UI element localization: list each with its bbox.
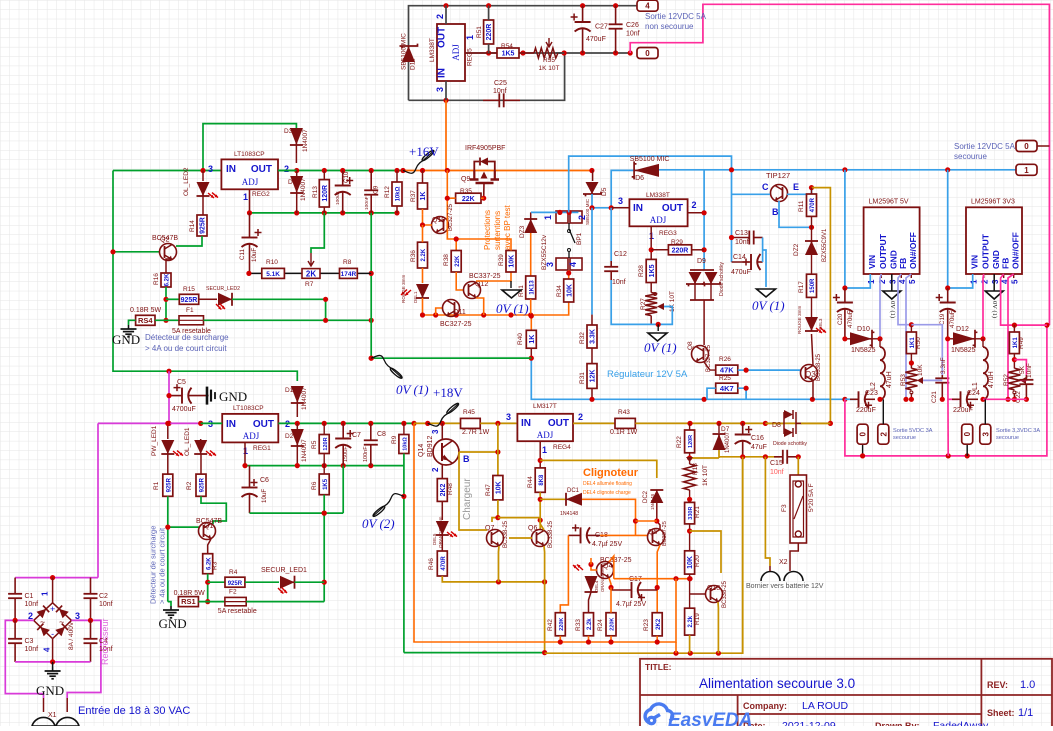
wire orange x676 to yellow bbox=[675, 642, 677, 653]
svg-text:R26: R26 bbox=[719, 356, 731, 363]
resistor R44 8k8 bbox=[535, 468, 545, 492]
inductor L2 47uH bbox=[880, 347, 885, 399]
svg-text:~: ~ bbox=[59, 617, 64, 627]
junction dots +16V rail bbox=[200, 168, 205, 173]
svg-text:BC338-25: BC338-25 bbox=[503, 520, 509, 548]
wire TIP127 base down bbox=[779, 201, 812, 227]
svg-text:925R: 925R bbox=[200, 217, 207, 234]
LED PW_LED1 bbox=[167, 423, 169, 439]
wire R46 bottom olive row bbox=[442, 576, 544, 582]
svg-text:IN: IN bbox=[521, 418, 531, 429]
svg-text:2: 2 bbox=[431, 467, 440, 472]
port 0 sortie non secourue - bbox=[637, 48, 658, 59]
wire Q4 emitter bbox=[609, 578, 611, 588]
svg-text:3: 3 bbox=[431, 429, 440, 434]
svg-text:R9: R9 bbox=[391, 435, 398, 444]
capacitor C27 470uF bbox=[582, 6, 584, 22]
svg-text:D9: D9 bbox=[697, 258, 706, 265]
svg-text:R37: R37 bbox=[410, 190, 417, 202]
svg-text:Q6: Q6 bbox=[528, 525, 537, 532]
wire pink ON/OFF block2 bbox=[1008, 274, 1014, 399]
svg-text:1K 10T: 1K 10T bbox=[702, 465, 709, 486]
svg-text:D2: D2 bbox=[285, 433, 294, 440]
svg-text:RS4: RS4 bbox=[138, 316, 153, 325]
wire Q13 emitter bbox=[717, 602, 719, 653]
wire R39 top bbox=[456, 239, 511, 251]
svg-text:non secourue: non secourue bbox=[645, 22, 694, 31]
svg-text:BC337-25: BC337-25 bbox=[469, 273, 501, 280]
svg-text:3: 3 bbox=[991, 279, 1000, 284]
resistor R51 220R bbox=[484, 20, 494, 44]
wire R10 R7 R8 row bbox=[249, 272, 262, 274]
wire Q12 collector bbox=[476, 272, 511, 281]
wire 0V(1) protections rail bbox=[423, 302, 569, 315]
svg-text:10K: 10K bbox=[566, 284, 573, 297]
svg-text:SB5100 MIC: SB5100 MIC bbox=[630, 156, 670, 163]
resistor R35 22K bbox=[456, 193, 481, 203]
resistor R32 3.3K bbox=[587, 325, 597, 348]
ground GND detector1 bbox=[168, 602, 171, 606]
capacitor C25 10nf bbox=[483, 99, 499, 101]
svg-text:R23: R23 bbox=[643, 619, 650, 631]
resistor R24 220K bbox=[606, 613, 616, 636]
svg-text:BC327-25: BC327-25 bbox=[448, 203, 454, 231]
svg-text:10nf: 10nf bbox=[493, 88, 507, 95]
resistor R38 22K bbox=[451, 251, 461, 273]
connector X1 bbox=[43, 698, 45, 712]
svg-text:R35: R35 bbox=[460, 188, 472, 195]
svg-text:100nF: 100nF bbox=[363, 446, 369, 462]
svg-text:R25: R25 bbox=[719, 375, 731, 382]
svg-text:surtentions: surtentions bbox=[493, 211, 502, 250]
svg-text:1N4007: 1N4007 bbox=[302, 129, 309, 152]
svg-text:OUT: OUT bbox=[548, 418, 569, 429]
svg-text:47uF: 47uF bbox=[751, 444, 767, 451]
wire Q6 base bbox=[509, 537, 532, 539]
diode D5 SB5100 MIC bbox=[586, 182, 599, 194]
wire adj row bbox=[245, 465, 404, 467]
svg-text:2: 2 bbox=[981, 279, 990, 284]
svg-text:R14: R14 bbox=[189, 220, 196, 232]
svg-text:SB5100 MIC: SB5100 MIC bbox=[585, 198, 590, 225]
wire olive R47 column bbox=[497, 423, 499, 475]
wire magenta bridge top bbox=[15, 577, 98, 579]
svg-text:DEL4: DEL4 bbox=[594, 580, 599, 592]
svg-text:Chargeur: Chargeur bbox=[462, 478, 473, 520]
svg-text:47uH: 47uH bbox=[988, 371, 995, 388]
svg-text:47uH: 47uH bbox=[886, 371, 893, 388]
svg-text:10kΩ: 10kΩ bbox=[403, 437, 409, 451]
svg-text:R43: R43 bbox=[618, 409, 630, 416]
svg-text:120R: 120R bbox=[323, 437, 329, 450]
transistor Q3 BC338-25 bbox=[801, 365, 818, 382]
wire cyan 12V secourue rail bbox=[659, 169, 1016, 171]
svg-text:925R: 925R bbox=[181, 297, 198, 304]
capacitor C2 10nf bbox=[90, 578, 92, 594]
wire R25 right down bbox=[738, 388, 746, 399]
svg-text:ADJ: ADJ bbox=[537, 430, 554, 440]
wire R3 bottom bbox=[207, 574, 209, 602]
transistor Q10 BC327-25 bbox=[432, 217, 449, 234]
svg-text:Redresseur: Redresseur bbox=[100, 618, 110, 665]
svg-text:LA ROUD: LA ROUD bbox=[802, 700, 849, 712]
wire C6 bottom row bbox=[250, 512, 344, 514]
svg-text:1: 1 bbox=[1024, 166, 1029, 175]
capacitor C15 10nf bbox=[774, 456, 783, 458]
svg-text:Q11: Q11 bbox=[453, 309, 466, 316]
diode D6 SB5100 MIC bbox=[634, 164, 659, 177]
resistor R11 470R bbox=[807, 194, 817, 216]
svg-text:REV:: REV: bbox=[987, 680, 1008, 690]
svg-text:1N4007: 1N4007 bbox=[301, 387, 308, 410]
svg-text:C22: C22 bbox=[1015, 391, 1022, 403]
svg-text:C: C bbox=[762, 182, 769, 192]
wire TIP127 collector cyan bbox=[732, 193, 771, 195]
fuse F3 5*20 5A F bbox=[790, 475, 807, 543]
svg-text:D3: D3 bbox=[284, 128, 293, 135]
svg-text:VIN: VIN bbox=[970, 255, 980, 269]
svg-text:10kΩ: 10kΩ bbox=[396, 186, 402, 201]
svg-text:D7: D7 bbox=[721, 426, 730, 433]
svg-text:D8: D8 bbox=[772, 422, 781, 429]
svg-text:Sortie 5VDC 3A: Sortie 5VDC 3A bbox=[893, 428, 933, 434]
wire Q7 base bbox=[459, 452, 487, 530]
svg-text:C8: C8 bbox=[377, 431, 386, 438]
svg-text:BC338-25: BC338-25 bbox=[816, 353, 822, 381]
svg-text:avec BP test: avec BP test bbox=[503, 204, 512, 250]
wire orange Q4 row bbox=[614, 578, 690, 580]
capacitor C26 10nf bbox=[615, 6, 617, 25]
potentiometer R27 1K 10T bbox=[650, 283, 652, 293]
wire REG5 pin3 down bbox=[445, 81, 447, 100]
svg-text:R49: R49 bbox=[1018, 337, 1025, 349]
svg-text:R24: R24 bbox=[597, 619, 604, 631]
svg-text:6.2K: 6.2K bbox=[165, 273, 171, 286]
svg-text:ADJ: ADJ bbox=[650, 215, 667, 225]
wire R7 wiper from adj row bbox=[311, 213, 324, 253]
svg-text:LT1083CP: LT1083CP bbox=[234, 151, 265, 158]
svg-text:R5: R5 bbox=[311, 440, 318, 449]
wire R26 right to Q3 base bbox=[738, 370, 801, 372]
port 0 block1 bbox=[857, 424, 868, 444]
svg-text:PW_LED1: PW_LED1 bbox=[151, 425, 158, 456]
wire REG2 top loop bbox=[203, 124, 296, 171]
svg-text:ORANGE 3mm: ORANGE 3mm bbox=[600, 563, 605, 592]
svg-text:L1: L1 bbox=[972, 382, 979, 390]
svg-text:SB5100 MIC: SB5100 MIC bbox=[401, 33, 408, 70]
mosfet Q9 IRF4905PBF bbox=[474, 162, 495, 171]
capacitor C4 10nf bbox=[90, 620, 92, 638]
wire olive rail +18V bbox=[414, 422, 461, 424]
wire REG2 out pin2 bbox=[278, 170, 297, 172]
svg-text:0: 0 bbox=[859, 431, 868, 436]
wire ADJ pin1 chain bbox=[650, 226, 652, 259]
svg-text:R8: R8 bbox=[343, 259, 352, 266]
svg-text:1K5: 1K5 bbox=[649, 264, 656, 277]
svg-text:220uF: 220uF bbox=[856, 407, 876, 414]
wire orange vertical protections bbox=[446, 170, 448, 239]
svg-text:R31: R31 bbox=[579, 372, 586, 384]
svg-text:C11: C11 bbox=[239, 249, 246, 260]
svg-text:2.7R 1W: 2.7R 1W bbox=[462, 429, 490, 436]
svg-text:10nf: 10nf bbox=[735, 239, 749, 246]
svg-text:D12: D12 bbox=[956, 326, 969, 333]
net flag 0V (1) protections bbox=[510, 281, 512, 288]
svg-text:R11: R11 bbox=[798, 200, 805, 212]
svg-text:10K: 10K bbox=[496, 481, 503, 494]
capacitor C1 10nf bbox=[14, 578, 16, 594]
LED SECUR_LED1 bbox=[245, 581, 279, 583]
svg-text:8K8: 8K8 bbox=[539, 474, 545, 486]
svg-text:3.3K: 3.3K bbox=[590, 329, 597, 344]
net flag 0V (1) TIP127 bbox=[757, 289, 776, 297]
wire 3V3 out rail with C24 bbox=[948, 398, 958, 400]
port 0 sortie 12V secourue bbox=[1016, 141, 1037, 152]
capacitor C8 100nF bbox=[370, 423, 372, 440]
transistor TIP127 Q bbox=[771, 185, 788, 202]
wire F2 right bbox=[246, 601, 324, 603]
svg-text:Q8: Q8 bbox=[687, 341, 694, 350]
port 3 block2 bbox=[980, 424, 991, 444]
wire yellow bottom rail bbox=[545, 457, 743, 653]
svg-text:8A / 400V: 8A / 400V bbox=[68, 621, 75, 650]
svg-text:R12: R12 bbox=[384, 186, 391, 198]
wire REG2 adj pin1 down bbox=[249, 189, 251, 213]
svg-text:Sortie 12VDC 5A: Sortie 12VDC 5A bbox=[954, 142, 1016, 151]
wire F3 to X2 bbox=[790, 543, 798, 566]
svg-text:Détecteur de surcharge: Détecteur de surcharge bbox=[149, 526, 158, 604]
wire SECUR_LED2 to right vertical bbox=[232, 299, 326, 320]
wire R6 bottom to detector bbox=[323, 495, 325, 602]
svg-text:BC338-25: BC338-25 bbox=[548, 520, 554, 548]
svg-text:0: 0 bbox=[1024, 142, 1029, 151]
resistor R28 1K5 bbox=[646, 259, 656, 282]
wire DC2 to Q5 collector bbox=[657, 503, 660, 529]
port 1 sortie 12V secourue bbox=[1016, 164, 1037, 175]
LED SECUR_LED2 bbox=[199, 298, 217, 300]
svg-text:Entrée de 18 à 30 VAC: Entrée de 18 à 30 VAC bbox=[78, 705, 190, 717]
svg-text:Q7: Q7 bbox=[485, 525, 494, 532]
wire lavender OUTPUT block1 bbox=[880, 274, 881, 339]
wire IN pin3 bbox=[611, 207, 629, 209]
wire R43 right rail bbox=[635, 422, 831, 424]
svg-text:SECUR_LED2: SECUR_LED2 bbox=[206, 286, 240, 292]
svg-text:R51: R51 bbox=[476, 26, 483, 38]
svg-text:R3: R3 bbox=[212, 561, 219, 570]
wire TIP127 emitter bbox=[787, 188, 812, 195]
capacitor C23 220uF bbox=[850, 398, 859, 400]
diode D3 1N4007 bbox=[290, 128, 303, 145]
resistor R31 12K bbox=[591, 348, 593, 364]
capacitor C14 470uF bbox=[732, 261, 752, 263]
wire Q8 emitter to R26 bbox=[704, 362, 716, 370]
svg-text:+: + bbox=[50, 604, 55, 614]
wire Q2 base feed bbox=[113, 251, 160, 253]
svg-text:174R: 174R bbox=[341, 271, 357, 278]
resistor R2 925R bbox=[196, 474, 206, 496]
svg-text:3: 3 bbox=[981, 431, 990, 436]
svg-text:R53: R53 bbox=[900, 374, 907, 386]
svg-text:R18: R18 bbox=[692, 463, 699, 475]
svg-text:470uF: 470uF bbox=[949, 310, 956, 328]
svg-text:3: 3 bbox=[506, 412, 511, 422]
regulator LM2596T 5V bbox=[864, 207, 920, 274]
wire R2 to Q1 collector bbox=[201, 496, 226, 524]
regulator U REG5 LM338T bbox=[437, 24, 465, 81]
wire Q3 collector chain bbox=[812, 334, 814, 365]
wire Q12 emitter to R39 R41 bbox=[476, 298, 484, 315]
wire bridge top lead bbox=[52, 578, 54, 603]
svg-text:220R: 220R bbox=[486, 24, 493, 41]
svg-text:LM2596T 5V: LM2596T 5V bbox=[869, 199, 909, 206]
svg-text:10nf: 10nf bbox=[99, 601, 113, 608]
capacitor C13 10nf bbox=[732, 237, 750, 239]
wire DC1 right orange bbox=[582, 499, 636, 535]
svg-text:R6: R6 bbox=[311, 481, 318, 490]
ground GND C5 bbox=[206, 387, 209, 405]
svg-text:0.18R 5W: 0.18R 5W bbox=[174, 590, 206, 597]
resistor R45 2.7R 1W bbox=[461, 418, 481, 428]
svg-text:IN: IN bbox=[437, 68, 448, 78]
svg-text:VIN: VIN bbox=[867, 255, 877, 269]
wire diode D5 feed bbox=[592, 170, 594, 181]
svg-text:Q12: Q12 bbox=[475, 281, 488, 288]
fuse F1 5A resetable bbox=[179, 316, 204, 325]
capacitor C20 470uF bbox=[844, 288, 846, 303]
wire REG1 top rail bbox=[169, 371, 297, 381]
diode DC1 1N4148 bbox=[540, 498, 565, 500]
svg-text:470uF: 470uF bbox=[586, 36, 606, 43]
resistor R13 120R bbox=[319, 180, 329, 207]
svg-text:1/1: 1/1 bbox=[1018, 707, 1033, 719]
EasyEDA logo bbox=[645, 704, 673, 724]
svg-text:470uF: 470uF bbox=[731, 269, 751, 276]
svg-text:LT1083CP: LT1083CP bbox=[233, 405, 264, 412]
svg-text:R13: R13 bbox=[312, 186, 319, 198]
svg-text:BC337-25: BC337-25 bbox=[662, 521, 668, 546]
svg-text:1N5825: 1N5825 bbox=[851, 347, 876, 354]
diode D8 double schottky bbox=[765, 422, 783, 424]
svg-text:D10: D10 bbox=[857, 326, 870, 333]
svg-text:1K5: 1K5 bbox=[323, 478, 329, 490]
svg-text:Diode schottky: Diode schottky bbox=[719, 262, 725, 296]
svg-text:R21: R21 bbox=[694, 506, 701, 518]
svg-text:Q5: Q5 bbox=[648, 529, 657, 536]
resistor R17 150R bbox=[811, 255, 813, 274]
svg-text:5: 5 bbox=[1011, 279, 1020, 284]
wire ADJ down bbox=[539, 441, 541, 468]
svg-text:5: 5 bbox=[908, 279, 917, 284]
resistor R47 10K bbox=[493, 476, 503, 500]
wire REG5 pin2 to top rail bbox=[445, 6, 447, 24]
resistor R39 10K bbox=[506, 251, 516, 273]
resistor R16 6.2K bbox=[161, 273, 171, 287]
wire vertical C9 column down bbox=[370, 213, 372, 358]
svg-text:C3: C3 bbox=[25, 638, 34, 645]
svg-text:REG5: REG5 bbox=[467, 48, 474, 66]
svg-text:150R: 150R bbox=[810, 278, 816, 293]
svg-text:ON#/OFF: ON#/OFF bbox=[908, 232, 918, 269]
svg-text:1: 1 bbox=[970, 279, 979, 284]
resistor R43 0.1R 1W bbox=[615, 418, 635, 428]
gnd arrow flag block1 pin3 bbox=[891, 274, 893, 291]
svg-text:REG2: REG2 bbox=[252, 191, 270, 198]
svg-text:IN: IN bbox=[226, 419, 236, 430]
wire cyan R32 column bbox=[591, 208, 593, 315]
svg-text:2021-12-09: 2021-12-09 bbox=[782, 720, 836, 726]
svg-text:R29: R29 bbox=[671, 239, 683, 246]
transistor Q2 BC547B bbox=[160, 244, 177, 261]
svg-text:R40: R40 bbox=[517, 333, 524, 345]
wire lavender FB block1 bbox=[898, 274, 911, 325]
wire R16 bottom to R15 node bbox=[165, 287, 167, 320]
svg-text:0V (1): 0V (1) bbox=[396, 382, 429, 397]
svg-text:L2: L2 bbox=[870, 382, 877, 390]
svg-text:OUT: OUT bbox=[253, 419, 274, 430]
wire magenta C5 branch bbox=[168, 371, 170, 423]
svg-text:0.1R 1W: 0.1R 1W bbox=[610, 429, 638, 436]
capacitor C12 10nf bbox=[610, 208, 612, 261]
diode D10 1N5825 bbox=[850, 332, 872, 345]
svg-text:D6: D6 bbox=[635, 175, 644, 182]
wire Q9 gate to R35 bbox=[483, 183, 485, 198]
resistor R10 5.1K bbox=[262, 268, 285, 278]
svg-text:GND: GND bbox=[112, 332, 140, 347]
wire lavender FB to C21 bbox=[911, 325, 942, 375]
svg-text:GND: GND bbox=[219, 389, 247, 404]
resistor R36 2.2K bbox=[418, 242, 428, 268]
wire pink OUTPUT block2 bbox=[982, 274, 985, 339]
svg-text:D1: D1 bbox=[285, 387, 294, 394]
wire port 3 up bbox=[984, 399, 986, 424]
svg-text:C25: C25 bbox=[494, 80, 507, 87]
svg-text:5A resetable: 5A resetable bbox=[218, 608, 257, 615]
svg-text:2: 2 bbox=[879, 431, 888, 436]
svg-text:BC338-25: BC338-25 bbox=[722, 580, 728, 608]
svg-text:Q13: Q13 bbox=[707, 585, 720, 592]
svg-text:ADJ: ADJ bbox=[451, 44, 461, 61]
svg-text:REG3: REG3 bbox=[659, 230, 677, 237]
transistor Q5 BC337-25 bbox=[648, 529, 665, 546]
svg-text:IRF4905PBF: IRF4905PBF bbox=[465, 145, 505, 152]
wire OUT pin2 to cyan vertical bbox=[688, 212, 705, 214]
capacitor C22 10nF bbox=[1025, 375, 1027, 380]
svg-text:2: 2 bbox=[28, 611, 33, 621]
wire C12 bottom cyan to R27 wiper bbox=[611, 280, 672, 324]
svg-text:ROUGE 3mm: ROUGE 3mm bbox=[401, 274, 406, 303]
wire port 0 block1 bbox=[862, 424, 864, 456]
pushbutton BP1 bbox=[556, 211, 568, 223]
diode D12 1N5825 bbox=[953, 332, 975, 345]
capacitor C6 10uF bbox=[249, 466, 251, 488]
wire C7 column to C6 row bbox=[342, 466, 344, 513]
wire magenta bridge bottom bbox=[15, 661, 90, 663]
wire R9 bottom to 0V2 and rail bbox=[403, 454, 405, 653]
wire DEL1 to 0V rail bbox=[422, 298, 424, 315]
potentiometer R52 5K bbox=[1013, 354, 1015, 369]
svg-text:1: 1 bbox=[465, 35, 475, 40]
transistor Q4 BC337-25 bbox=[597, 562, 614, 579]
svg-text:1K 10T: 1K 10T bbox=[539, 65, 560, 72]
wire RS4 to F1 row bbox=[155, 319, 179, 321]
resistor RS4 shunt 0.18R 5W bbox=[136, 315, 155, 325]
svg-text:10nf: 10nf bbox=[770, 469, 784, 476]
svg-text:R4: R4 bbox=[229, 569, 238, 576]
wire R27 bottom to 0V bbox=[650, 316, 652, 325]
svg-text:BD912: BD912 bbox=[427, 435, 434, 457]
resistor R37 1K bbox=[418, 183, 428, 209]
diode D2 1N4007 bbox=[291, 429, 304, 446]
